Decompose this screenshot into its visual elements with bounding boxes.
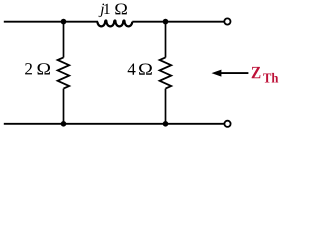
resistor 4 ohm zigzag (160, 57, 172, 88)
node dot top-right junction (163, 19, 169, 25)
wire top-right segment (132, 21, 224, 23)
resistor 2 ohm zigzag (58, 57, 70, 88)
label Z_Th (252, 67, 261, 78)
wire middle vertical lower (165, 89, 167, 124)
wire bottom (4, 123, 225, 125)
wire left vertical lower (63, 89, 65, 124)
label 2 Ohm (25, 63, 50, 74)
label 4 Ohm (128, 64, 152, 75)
inductor L (j1 ohm) with curled scallops (97, 20, 132, 26)
node dot bottom-right junction (163, 121, 169, 127)
node dot bottom-left junction (61, 121, 67, 127)
node dot top-left junction (61, 19, 67, 25)
wire middle vertical upper (165, 22, 167, 58)
wire top-left segment (4, 21, 98, 23)
arrow for Z_Th (pointing left) (218, 72, 248, 74)
terminal a (top open circle) (224, 18, 230, 24)
label j1 Ohm (99, 3, 127, 17)
wire left vertical upper (63, 22, 65, 58)
terminal b (bottom open circle) (224, 121, 230, 127)
